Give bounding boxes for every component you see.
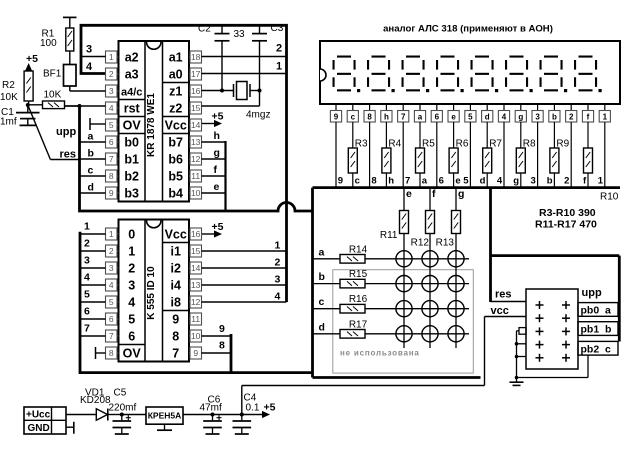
svg-text:a2: a2 (125, 51, 139, 65)
svg-text:2: 2 (109, 69, 114, 79)
svg-text:11: 11 (191, 314, 200, 324)
svg-text:c: c (351, 113, 356, 122)
svg-text:a: a (319, 246, 325, 258)
svg-text:h: h (214, 130, 220, 142)
svg-text:220mf: 220mf (109, 403, 137, 414)
svg-text:b0: b0 (124, 136, 139, 150)
svg-text:f: f (214, 164, 218, 176)
svg-text:g: g (458, 188, 464, 200)
svg-text:4: 4 (502, 113, 507, 122)
svg-text:2: 2 (276, 43, 282, 55)
svg-text:R15: R15 (349, 269, 368, 280)
svg-text:1: 1 (84, 221, 90, 233)
svg-text:8: 8 (219, 340, 225, 352)
svg-text:upp: upp (56, 126, 76, 138)
svg-text:Vcc: Vcc (165, 228, 187, 242)
svg-text:c: c (88, 165, 94, 177)
svg-text:5: 5 (463, 176, 469, 187)
svg-text:4mgz: 4mgz (246, 110, 270, 121)
svg-text:i4: i4 (170, 279, 180, 293)
svg-text:g: g (214, 147, 220, 159)
svg-text:R11: R11 (380, 230, 398, 241)
svg-text:12: 12 (191, 297, 201, 307)
svg-text:0: 0 (128, 228, 135, 242)
svg-text:a0: a0 (169, 68, 183, 82)
svg-text:4: 4 (109, 280, 114, 290)
svg-text:b: b (552, 113, 557, 122)
svg-text:12: 12 (191, 154, 201, 164)
svg-text:17: 17 (191, 69, 201, 79)
svg-text:b5: b5 (168, 170, 183, 184)
svg-text:11: 11 (191, 171, 200, 181)
svg-text:c: c (605, 343, 611, 355)
svg-text:1: 1 (598, 176, 604, 187)
svg-text:3: 3 (128, 279, 135, 293)
svg-text:res: res (60, 149, 77, 161)
svg-text:100: 100 (40, 38, 57, 49)
svg-text:b2: b2 (124, 170, 139, 184)
svg-text:18: 18 (191, 52, 201, 62)
svg-text:14: 14 (191, 263, 201, 273)
svg-text:14: 14 (191, 120, 201, 130)
svg-text:f: f (432, 188, 436, 200)
svg-text:10K: 10K (0, 92, 18, 103)
svg-text:c: c (319, 296, 325, 308)
svg-text:9: 9 (172, 313, 179, 327)
svg-text:16: 16 (191, 86, 201, 96)
svg-text:47mf: 47mf (200, 403, 222, 414)
svg-text:i8: i8 (170, 296, 180, 310)
svg-text:R17: R17 (349, 319, 368, 330)
svg-text:4: 4 (275, 291, 281, 303)
svg-text:g: g (513, 176, 519, 187)
svg-text:R9: R9 (556, 138, 569, 149)
svg-text:5: 5 (468, 113, 473, 122)
svg-text:не использована: не использована (340, 349, 420, 358)
svg-text:8: 8 (371, 176, 376, 187)
svg-text:R11-R17 470: R11-R17 470 (535, 219, 597, 231)
svg-text:+5: +5 (26, 53, 38, 65)
svg-text:R4: R4 (388, 138, 401, 149)
svg-text:1: 1 (603, 113, 608, 122)
svg-text:R12: R12 (411, 238, 430, 249)
svg-text:10: 10 (191, 188, 201, 198)
svg-text:7: 7 (84, 323, 90, 335)
svg-text:7: 7 (172, 347, 179, 361)
svg-text:OV: OV (123, 347, 142, 361)
svg-text:15: 15 (191, 246, 201, 256)
svg-text:2: 2 (275, 257, 281, 269)
svg-text:e: e (406, 188, 412, 200)
svg-text:R14: R14 (349, 244, 368, 255)
svg-text:9: 9 (193, 348, 198, 358)
svg-text:e: e (214, 181, 220, 193)
svg-text:KD208: KD208 (80, 395, 111, 406)
svg-text:7: 7 (401, 113, 406, 122)
svg-text:7: 7 (405, 176, 410, 187)
svg-text:9: 9 (338, 176, 343, 187)
svg-text:9: 9 (219, 323, 225, 335)
svg-text:9: 9 (334, 113, 339, 122)
svg-text:R10: R10 (600, 192, 619, 203)
svg-text:1mf: 1mf (0, 117, 17, 128)
svg-text:6: 6 (109, 137, 114, 147)
svg-text:6: 6 (128, 330, 135, 344)
svg-text:d: d (319, 321, 325, 333)
svg-text:3: 3 (86, 44, 92, 56)
svg-text:3: 3 (109, 86, 114, 96)
svg-text:Vcc: Vcc (165, 119, 187, 133)
svg-text:1: 1 (109, 52, 114, 62)
svg-text:KR 1878 WE1: KR 1878 WE1 (146, 93, 157, 157)
svg-text:a3: a3 (125, 68, 139, 82)
svg-text:R7: R7 (489, 138, 502, 149)
svg-text:GND: GND (28, 423, 50, 434)
svg-text:a: a (88, 131, 94, 143)
svg-text:i2: i2 (170, 262, 180, 276)
svg-text:b7: b7 (168, 136, 183, 150)
svg-text:h: h (388, 176, 394, 187)
svg-text:R3-R10 390: R3-R10 390 (539, 207, 596, 219)
svg-text:a4/c: a4/c (121, 87, 142, 99)
svg-text:1: 1 (109, 229, 114, 239)
svg-text:3: 3 (531, 176, 536, 187)
svg-text:OV: OV (123, 119, 142, 133)
svg-text:КРЕН5А: КРЕН5А (148, 411, 182, 421)
svg-text:2: 2 (569, 113, 574, 122)
svg-text:8: 8 (109, 171, 114, 181)
svg-text:f: f (587, 113, 590, 122)
svg-text:a: a (418, 113, 423, 122)
svg-text:pb1: pb1 (581, 324, 600, 336)
svg-text:8: 8 (172, 330, 179, 344)
svg-text:K 555 ID 10: K 555 ID 10 (146, 266, 157, 320)
svg-text:+5: +5 (212, 221, 224, 233)
svg-text:3: 3 (535, 113, 540, 122)
svg-text:2: 2 (564, 176, 569, 187)
svg-text:6: 6 (84, 306, 90, 318)
svg-text:10K: 10K (44, 90, 62, 101)
svg-text:2: 2 (128, 262, 135, 276)
svg-text:33: 33 (234, 29, 246, 40)
svg-text:b3: b3 (124, 187, 139, 201)
svg-text:a1: a1 (169, 51, 183, 65)
svg-text:a: a (422, 176, 428, 187)
svg-text:+5: +5 (264, 402, 276, 414)
svg-text:b: b (547, 176, 553, 187)
svg-text:res: res (495, 289, 512, 301)
svg-text:10: 10 (191, 331, 201, 341)
svg-text:+5: +5 (212, 111, 224, 123)
svg-text:C2: C2 (198, 24, 211, 35)
svg-text:b: b (605, 324, 611, 336)
svg-text:2: 2 (84, 238, 90, 250)
svg-text:a: a (605, 305, 611, 317)
svg-text:upp: upp (582, 287, 602, 299)
svg-text:1: 1 (275, 240, 281, 252)
svg-text:e: e (455, 176, 460, 187)
svg-text:BF1: BF1 (43, 69, 62, 80)
svg-text:16: 16 (191, 229, 201, 239)
svg-text:7: 7 (109, 154, 114, 164)
svg-text:R2: R2 (2, 80, 15, 91)
svg-text:6: 6 (439, 176, 444, 187)
svg-text:3: 3 (109, 263, 114, 273)
svg-text:7: 7 (109, 331, 114, 341)
svg-text:R6: R6 (456, 138, 469, 149)
svg-text:15: 15 (191, 103, 201, 113)
svg-text:b1: b1 (124, 153, 139, 167)
svg-text:d: d (480, 176, 486, 187)
svg-text:C5: C5 (114, 388, 127, 399)
svg-text:2: 2 (109, 246, 114, 256)
svg-text:5: 5 (109, 297, 114, 307)
svg-text:8: 8 (109, 348, 114, 358)
svg-text:d: d (88, 182, 94, 194)
svg-text:13: 13 (191, 137, 201, 147)
svg-text:5: 5 (84, 289, 90, 301)
svg-text:4: 4 (86, 61, 93, 73)
svg-text:vcc: vcc (491, 305, 509, 317)
svg-text:b: b (88, 148, 94, 160)
svg-text:pb0: pb0 (581, 305, 600, 317)
svg-text:rst: rst (124, 102, 141, 116)
svg-text:R13: R13 (436, 238, 455, 249)
svg-text:6: 6 (435, 113, 440, 122)
svg-text:b6: b6 (168, 153, 183, 167)
svg-text:z2: z2 (169, 102, 182, 116)
svg-text:4: 4 (128, 296, 135, 310)
svg-text:аналог АЛС 318 (применяют в АО: аналог АЛС 318 (применяют в АОН) (383, 24, 553, 35)
svg-text:d: d (485, 113, 490, 122)
svg-text:5: 5 (109, 120, 114, 130)
svg-text:5: 5 (128, 313, 135, 327)
svg-text:1: 1 (128, 245, 135, 259)
svg-text:R3: R3 (355, 138, 368, 149)
svg-text:c: c (355, 176, 360, 187)
svg-text:R8: R8 (523, 138, 536, 149)
svg-text:4: 4 (497, 176, 503, 187)
svg-text:0.1: 0.1 (246, 403, 260, 414)
svg-text:13: 13 (191, 280, 201, 290)
svg-text:h: h (384, 113, 389, 122)
svg-text:e: e (451, 113, 456, 122)
svg-text:z1: z1 (169, 85, 182, 99)
svg-text:9: 9 (109, 188, 114, 198)
svg-text:b: b (319, 271, 325, 283)
svg-text:6: 6 (109, 314, 114, 324)
svg-text:8: 8 (367, 113, 372, 122)
svg-text:3: 3 (84, 255, 90, 267)
svg-text:b4: b4 (168, 187, 183, 201)
svg-text:1: 1 (276, 61, 282, 73)
svg-text:4: 4 (109, 103, 114, 113)
svg-text:R16: R16 (349, 294, 368, 305)
svg-text:3: 3 (275, 274, 281, 286)
svg-text:+Ucc: +Ucc (26, 410, 51, 421)
svg-text:g: g (518, 113, 523, 122)
svg-text:C3: C3 (271, 23, 284, 34)
svg-text:i1: i1 (170, 245, 180, 259)
svg-text:pb2: pb2 (581, 343, 600, 355)
svg-text:4: 4 (84, 272, 90, 284)
svg-text:R5: R5 (422, 138, 435, 149)
